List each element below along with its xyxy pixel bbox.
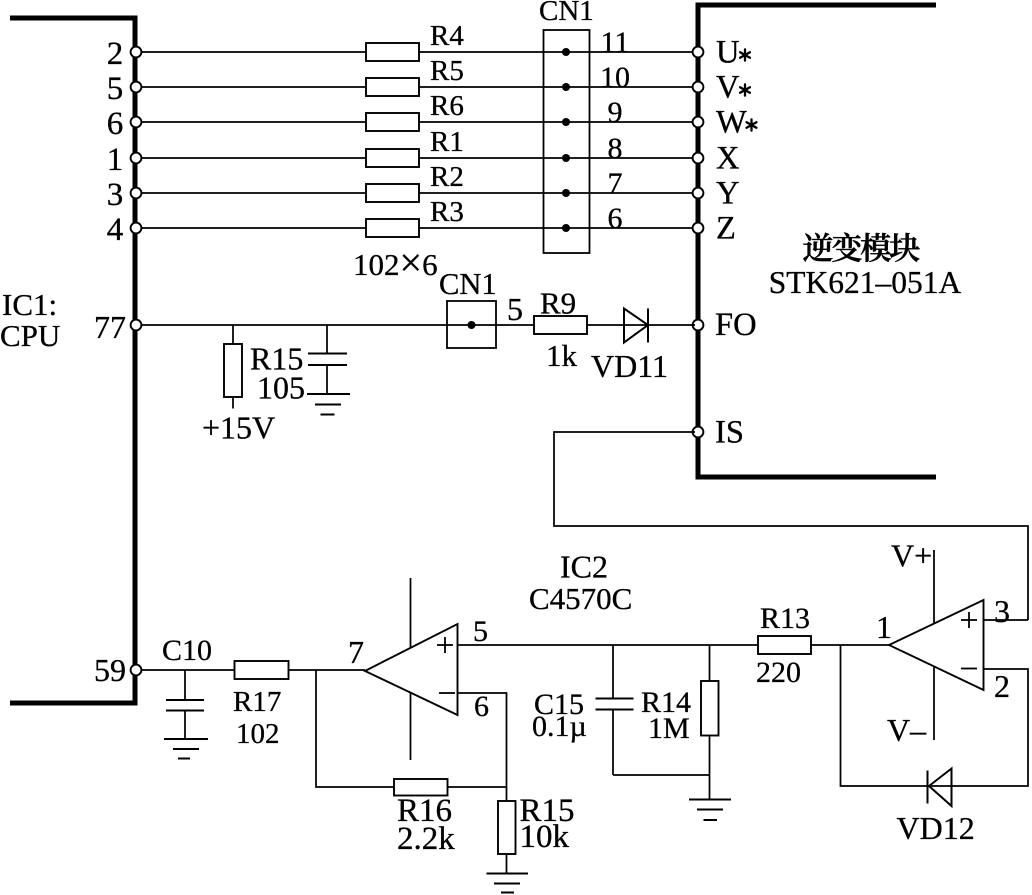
module pin Z: [693, 211, 736, 247]
svg-text:STK621–051A: STK621–051A: [769, 265, 962, 300]
wire C15 to R14 bottom: [613, 774, 710, 776]
op-amp IC2b + input mark: [961, 612, 977, 628]
svg-text:59: 59: [94, 652, 126, 688]
wire row pin 2 to module: [136, 51, 695, 53]
svg-text:9: 9: [608, 96, 623, 129]
wire row pin 3 to module: [136, 192, 695, 194]
resistor R2: [366, 161, 464, 202]
svg-text:6: 6: [474, 690, 489, 723]
svg-text:11: 11: [601, 26, 630, 59]
svg-text:FO: FO: [715, 307, 757, 343]
svg-text:5: 5: [507, 291, 523, 327]
svg-text:102: 102: [236, 718, 280, 750]
svg-text:C4570C: C4570C: [529, 581, 632, 616]
wire row pin 6 to module: [136, 121, 695, 123]
CN1 junction dot pin 8: [562, 154, 570, 162]
resistor R14 (1M): [641, 645, 719, 800]
svg-text:3: 3: [107, 177, 124, 213]
CPU pin 4 terminal: [131, 223, 142, 234]
op-amp IC2a − input mark: [439, 692, 455, 694]
svg-text:102×6: 102×6: [353, 240, 438, 285]
capacitor at pin 77: [308, 325, 347, 394]
svg-text:IC2: IC2: [560, 549, 608, 585]
svg-text:C10: C10: [162, 634, 212, 667]
ground: [487, 874, 529, 893]
resistor R6: [366, 90, 464, 131]
resistor R13 (220): [756, 602, 811, 689]
svg-text:V+: V+: [891, 538, 932, 574]
wire pin 59 to op-amp: [136, 669, 365, 671]
svg-text:VD12: VD12: [897, 810, 975, 846]
module pin V*: [693, 70, 750, 106]
resistor R17 (102): [233, 661, 289, 750]
svg-text:77: 77: [94, 309, 126, 345]
svg-text:V–: V–: [887, 712, 927, 748]
CPU pin 77 terminal: [131, 320, 142, 331]
svg-text:10: 10: [600, 61, 630, 94]
CN1 junction dot pin 9: [562, 118, 570, 126]
svg-text:3: 3: [994, 593, 1010, 629]
svg-text:220: 220: [756, 656, 801, 689]
CPU pin 59 terminal: [131, 665, 142, 676]
CPU pin 5 terminal: [131, 82, 142, 93]
svg-text:R17: R17: [233, 686, 281, 718]
CPU pin 1 terminal: [131, 153, 142, 164]
svg-text:6: 6: [107, 106, 124, 142]
svg-text:2: 2: [107, 36, 124, 72]
resistor R3: [366, 196, 464, 237]
wire op-amp IC2a output feedback: [316, 670, 507, 787]
resistor R9 (1k): [534, 286, 587, 374]
svg-text:6: 6: [608, 202, 623, 235]
svg-text:VD11: VD11: [591, 348, 668, 384]
op-amp IC2a power rail: [410, 578, 412, 760]
svg-text:5: 5: [107, 71, 124, 107]
svg-text:7: 7: [348, 634, 364, 670]
wire op-amp IC2b pin 2 to VD12: [841, 645, 1029, 786]
svg-text:R1: R1: [430, 126, 464, 158]
CN1 junction dot pin 10: [562, 83, 570, 91]
IC1 CPU bus bar: [10, 18, 135, 703]
module pin IS: [693, 415, 744, 451]
svg-text:1: 1: [876, 609, 892, 645]
svg-text:1: 1: [107, 142, 124, 178]
op-amp IC2a + input mark: [437, 637, 453, 653]
svg-text:105: 105: [257, 370, 305, 406]
svg-text:CN1: CN1: [439, 267, 497, 301]
svg-text:2.2k: 2.2k: [397, 821, 455, 857]
op-amp IC2b power rail: [933, 550, 935, 740]
svg-text:7: 7: [608, 167, 623, 200]
svg-text:IS: IS: [715, 415, 744, 451]
svg-text:5: 5: [473, 615, 488, 648]
op-amp IC2b − input mark: [961, 668, 977, 670]
ground: [307, 394, 350, 415]
svg-text:R4: R4: [430, 20, 464, 52]
resistor R15 (10k): [498, 787, 575, 874]
svg-text:CPU: CPU: [0, 318, 60, 353]
svg-text:10k: 10k: [520, 819, 570, 855]
op-amp IC2a triangle: [365, 624, 458, 715]
wire pin 77 to FO: [136, 324, 695, 326]
capacitor C15 (0.1µ): [532, 645, 634, 775]
CPU pin 2 terminal: [131, 47, 142, 58]
wire IS net: [554, 432, 1028, 620]
wire op-amp IC2a pin5 to IC2b: [458, 644, 890, 646]
resistor R5: [366, 55, 464, 96]
wire row pin 5 to module: [136, 86, 695, 88]
resistor R1: [366, 126, 464, 167]
CN1 junction dot pin 7: [562, 189, 570, 197]
resistor R4: [366, 20, 464, 61]
connector CN1 (6-pin): [539, 0, 594, 253]
svg-text:0.1µ: 0.1µ: [532, 710, 587, 743]
CN1 junction dot pin 6: [562, 224, 570, 232]
svg-text:R2: R2: [430, 161, 464, 193]
module pin X: [693, 141, 740, 177]
svg-text:V: V: [716, 70, 740, 106]
svg-text:Z: Z: [716, 211, 736, 247]
CPU pin 3 terminal: [131, 188, 142, 199]
svg-text:4: 4: [107, 212, 124, 248]
svg-text:W: W: [716, 105, 747, 141]
svg-text:R6: R6: [430, 90, 464, 122]
svg-text:CN1: CN1: [539, 0, 594, 27]
svg-text:1k: 1k: [546, 338, 578, 373]
svg-text:Y: Y: [716, 176, 739, 212]
op-amp IC2b triangle: [889, 600, 984, 690]
svg-text:IC1:: IC1:: [2, 287, 57, 322]
diode VD12: [897, 769, 975, 847]
ground: [164, 739, 208, 759]
svg-text:U: U: [716, 35, 739, 71]
connector CN1 pin 5: [439, 267, 523, 348]
ground: [689, 800, 731, 821]
wire op-amp IC2b pin 3: [984, 619, 1029, 621]
wire row pin 1 to module: [136, 157, 695, 159]
svg-text:1M: 1M: [648, 712, 690, 745]
svg-text:R13: R13: [760, 602, 810, 635]
svg-text:+15V: +15V: [202, 410, 275, 446]
diode VD11: [591, 309, 668, 385]
wire row pin 4 to module: [136, 227, 695, 229]
CN1 junction dot pin 11: [562, 48, 570, 56]
module name 逆变模块: [803, 233, 920, 262]
resistor R15 (105) pull-up: [224, 325, 305, 409]
svg-text:R9: R9: [540, 286, 576, 321]
svg-text:8: 8: [608, 132, 623, 165]
svg-text:X: X: [716, 141, 739, 177]
CPU pin 6 terminal: [131, 117, 142, 128]
capacitor C10: [162, 634, 212, 738]
svg-text:R3: R3: [430, 196, 464, 228]
svg-text:2: 2: [994, 668, 1010, 704]
module pin W*: [693, 105, 757, 141]
inverter module STK621-051A outline: [698, 5, 936, 477]
module pin Y: [693, 176, 740, 212]
module pin FO: [693, 307, 757, 343]
svg-text:R5: R5: [430, 55, 464, 87]
module pin U*: [693, 35, 750, 71]
resistor R16 (2.2k) feedback: [394, 779, 455, 857]
